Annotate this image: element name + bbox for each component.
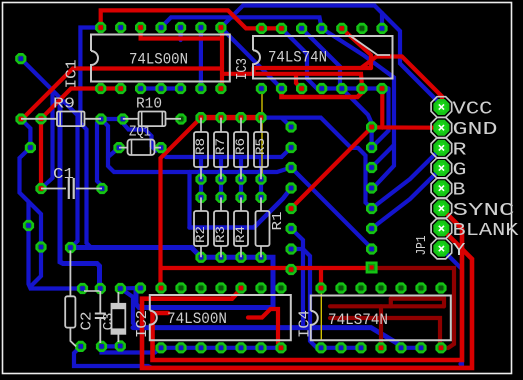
svg-text:IC3: IC3 xyxy=(234,58,251,80)
svg-text:R5: R5 xyxy=(253,138,268,155)
svg-text:74LS00N: 74LS00N xyxy=(129,51,188,69)
svg-text:C3: C3 xyxy=(101,313,117,331)
svg-text:R: R xyxy=(453,139,467,160)
svg-text:C2: C2 xyxy=(79,312,96,331)
svg-text:74LS00N: 74LS00N xyxy=(167,310,227,328)
svg-text:C1: C1 xyxy=(53,166,74,183)
svg-text:VCC: VCC xyxy=(453,99,493,120)
svg-text:BLANK: BLANK xyxy=(453,220,520,241)
svg-text:IC1: IC1 xyxy=(64,60,81,89)
svg-text:ZQ1: ZQ1 xyxy=(129,124,151,141)
svg-text:JP1: JP1 xyxy=(414,236,430,256)
svg-text:R7: R7 xyxy=(213,138,228,155)
svg-text:R2: R2 xyxy=(193,226,208,243)
svg-text:IC2: IC2 xyxy=(134,310,151,338)
svg-text:R10: R10 xyxy=(136,96,162,113)
svg-text:IC4: IC4 xyxy=(297,310,314,338)
svg-text:R3: R3 xyxy=(213,226,228,243)
svg-text:B: B xyxy=(453,180,466,201)
svg-text:SYNC: SYNC xyxy=(453,200,515,221)
svg-text:R1: R1 xyxy=(270,212,286,231)
svg-text:G: G xyxy=(453,160,467,181)
svg-text:R9: R9 xyxy=(53,96,75,113)
svg-text:74LS74N: 74LS74N xyxy=(268,49,327,67)
svg-text:R4: R4 xyxy=(233,226,248,243)
svg-text:GND: GND xyxy=(453,119,498,140)
svg-text:Y: Y xyxy=(453,240,466,261)
svg-text:R8: R8 xyxy=(193,138,208,155)
svg-text:74LS74N: 74LS74N xyxy=(328,311,388,329)
svg-text:R6: R6 xyxy=(233,138,248,155)
